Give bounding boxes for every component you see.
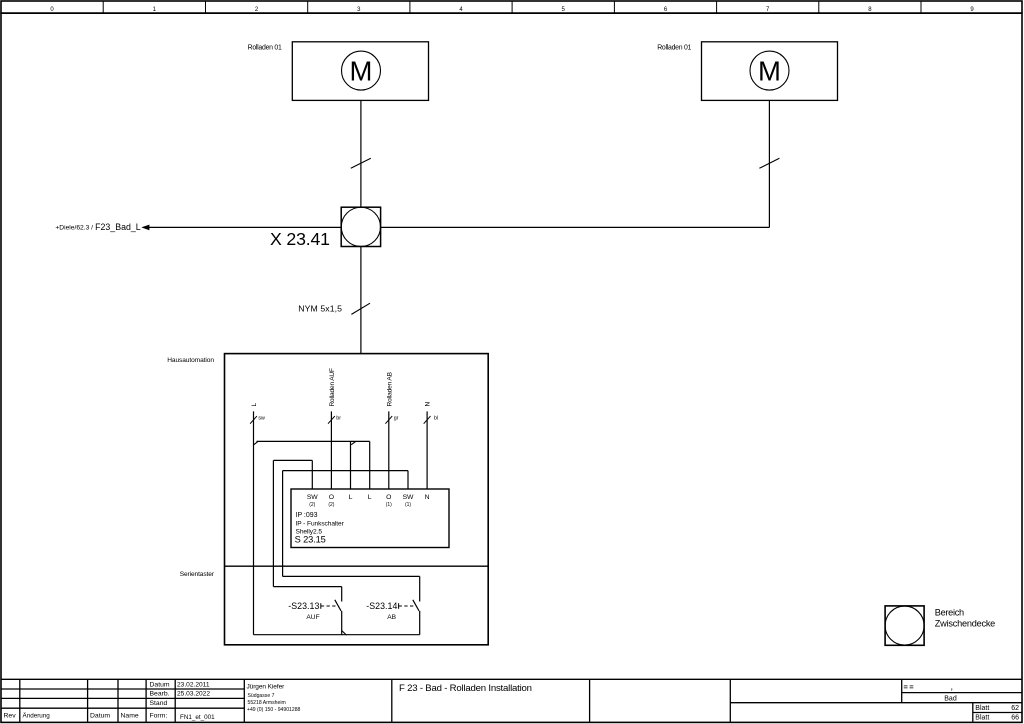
svg-text:Rolladen 01: Rolladen 01 <box>657 45 691 52</box>
svg-text:IP :093: IP :093 <box>296 512 318 519</box>
svg-text:M: M <box>758 55 781 86</box>
svg-text:M: M <box>350 55 373 86</box>
svg-text:Blatt: Blatt <box>975 705 989 712</box>
svg-text:br: br <box>336 416 341 422</box>
svg-text:Zwischendecke: Zwischendecke <box>935 619 996 629</box>
svg-text:Südgasse 7: Südgasse 7 <box>248 693 275 699</box>
svg-text:Rev: Rev <box>4 713 17 720</box>
svg-text:(1): (1) <box>405 502 411 508</box>
svg-text:Name: Name <box>121 713 139 720</box>
svg-text:sw: sw <box>258 416 265 422</box>
svg-text:FN1_et_001: FN1_et_001 <box>180 714 215 721</box>
svg-text:F 23 - Bad - Rolladen Installa: F 23 - Bad - Rolladen Installation <box>399 683 532 694</box>
svg-text:Bad: Bad <box>944 695 957 702</box>
svg-text:Hausautomation: Hausautomation <box>167 357 214 364</box>
svg-text:O: O <box>329 494 334 501</box>
svg-text:(1): (1) <box>386 502 392 508</box>
svg-text:F23_Bad_L: F23_Bad_L <box>95 222 141 232</box>
svg-text:Rolladen AB: Rolladen AB <box>386 371 393 406</box>
svg-text:L: L <box>349 494 353 501</box>
svg-text:Bereich: Bereich <box>935 607 964 617</box>
svg-text:= =: = = <box>904 682 915 691</box>
svg-text:L: L <box>368 494 372 501</box>
svg-text:55218 Armsheim: 55218 Armsheim <box>248 700 286 706</box>
svg-text:Datum: Datum <box>150 681 170 688</box>
svg-text:Änderung: Änderung <box>23 712 51 720</box>
svg-text:L: L <box>251 403 258 407</box>
svg-text:NYM 5x1,5: NYM 5x1,5 <box>298 304 342 314</box>
svg-text:SW: SW <box>403 494 414 501</box>
svg-text:Serientaster: Serientaster <box>180 571 215 578</box>
svg-text:gr: gr <box>394 416 399 422</box>
svg-text:-S23.14: -S23.14 <box>366 601 397 611</box>
svg-text:Jürgen Kiefer: Jürgen Kiefer <box>247 683 286 690</box>
svg-text:Form:: Form: <box>150 713 168 720</box>
svg-text:Blatt: Blatt <box>975 715 989 722</box>
svg-text:N: N <box>425 402 432 407</box>
svg-text:(2): (2) <box>309 502 315 508</box>
svg-text:25.03.2022: 25.03.2022 <box>177 691 210 698</box>
svg-text:62: 62 <box>1011 705 1019 712</box>
svg-text:-S23.13: -S23.13 <box>288 601 319 611</box>
svg-text:+49 (0) 150 - 94901288: +49 (0) 150 - 94901288 <box>247 707 301 713</box>
svg-text:Rolladen 01: Rolladen 01 <box>248 45 282 52</box>
svg-text:Datum: Datum <box>90 713 110 720</box>
svg-text:IP - Funkschalter: IP - Funkschalter <box>296 520 345 527</box>
svg-text:S 23.15: S 23.15 <box>295 535 326 545</box>
svg-text:,: , <box>951 682 954 692</box>
svg-text:AB: AB <box>387 614 396 621</box>
svg-text:Bearb.: Bearb. <box>150 691 170 698</box>
svg-text:N: N <box>425 494 430 501</box>
svg-text:Rolladen AUF: Rolladen AUF <box>329 368 336 407</box>
svg-text:66: 66 <box>1011 715 1019 722</box>
svg-text:O: O <box>386 494 391 501</box>
svg-text:bl: bl <box>434 416 438 422</box>
svg-text:23.02.2011: 23.02.2011 <box>177 681 210 688</box>
svg-text:AUF: AUF <box>306 614 319 621</box>
svg-text:+Diele/62.3 /: +Diele/62.3 / <box>55 225 93 232</box>
svg-text:Stand: Stand <box>150 700 168 707</box>
svg-text:(2): (2) <box>328 502 334 508</box>
svg-text:SW: SW <box>307 494 318 501</box>
svg-text:X 23.41: X 23.41 <box>270 229 330 249</box>
